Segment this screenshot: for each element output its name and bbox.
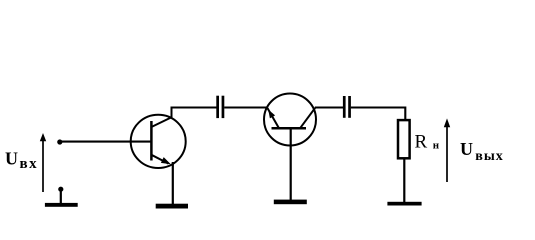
wire Q2 base to ground [290,129,292,201]
node A (input top terminal) [57,139,62,144]
transistor Q1 emitter arrow [161,157,171,164]
wire C2 to load corner [351,108,406,120]
svg-text:U: U [5,148,18,168]
wire Q1 collector to C1 [171,106,217,108]
wire Q2 collector to C2 [315,106,343,108]
svg-text:U: U [460,139,473,159]
wire Q1 emitter to ground [172,162,174,204]
label R_H [415,132,440,153]
transistor Q2 emitter lead [267,108,279,128]
svg-text:R: R [415,132,428,153]
ground (Q1 emitter) [156,204,188,209]
wire C1 to Q2 emitter [224,106,267,108]
transistor Q1 emitter lead [151,155,168,164]
label U_vx [5,148,38,171]
capacitor C1 [216,96,224,118]
ground (load) [387,202,421,206]
ground (Q2 base) [274,200,307,205]
transistor Q1 circle [131,115,186,168]
transistor Q2 base bar [272,127,307,130]
ground (input) [45,203,78,207]
input arrow [40,133,46,192]
wire input to base [60,141,152,143]
svg-text:вых: вых [475,149,504,164]
output arrow [444,118,450,182]
svg-text:вх: вх [20,156,39,172]
label U_vyx [460,139,504,164]
wire node B to ground [60,189,62,203]
transistor Q1 base bar [150,121,153,161]
transistor Q1 collector lead [151,108,171,128]
svg-text:н: н [433,140,440,152]
capacitor C2 [343,96,351,118]
transistor Q2 collector lead [300,108,315,129]
node B (input bottom terminal) [58,187,63,192]
wire RH to ground [403,160,405,204]
transistor Q2 emitter arrow [268,110,275,119]
resistor RH body [398,120,410,158]
transistor Q2 circle [264,94,316,146]
